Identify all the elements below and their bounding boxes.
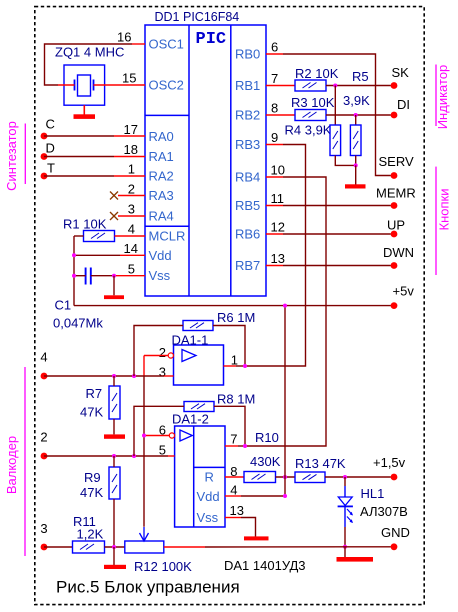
svg-text:1: 1	[231, 353, 238, 368]
junction R7 top	[112, 374, 116, 378]
svg-text:3: 3	[40, 521, 47, 536]
wire R1 left to +5 bus	[74, 235, 84, 237]
wire R11 to R12	[105, 546, 125, 548]
node GND	[391, 543, 398, 550]
junction R11/R12/R9/ground	[112, 545, 116, 549]
wire RB3 pin9 to DA1-1 output	[266, 144, 283, 146]
svg-text:DA1-2: DA1-2	[172, 412, 209, 427]
wire RA4 stub with no-connect X	[118, 215, 145, 217]
wire input3 to R11	[44, 546, 73, 548]
svg-text:R6 1M: R6 1M	[217, 310, 255, 325]
node 3 input	[41, 544, 48, 551]
wire DA1-1 output pin1	[224, 365, 237, 367]
svg-text:RA4: RA4	[149, 209, 174, 224]
ground (R7)	[104, 434, 125, 438]
wire R6 right to DA1-1 output	[213, 326, 245, 367]
svg-text:RB3: RB3	[235, 137, 260, 152]
svg-text:430K: 430K	[250, 454, 281, 469]
svg-text:11: 11	[271, 191, 285, 206]
svg-text:SK: SK	[392, 65, 410, 80]
net label Валкодер	[24, 367, 26, 556]
svg-text:UP: UP	[387, 218, 405, 233]
wire R5 top	[355, 115, 357, 125]
node 4 input	[41, 373, 48, 380]
svg-text:RB1: RB1	[235, 78, 260, 93]
wire pin6 DA1-2	[144, 435, 169, 437]
wire DA1-2 pin8 stub	[225, 476, 244, 478]
junction +5 rail	[283, 304, 287, 308]
resistor R11	[73, 541, 105, 553]
svg-text:R8 1M: R8 1M	[217, 392, 255, 407]
svg-text:R7: R7	[86, 386, 103, 401]
wire C to RA0	[44, 135, 114, 137]
wire R3 to DI	[326, 114, 391, 116]
junction DA1-1 output	[243, 364, 247, 368]
wire R9 top	[113, 456, 115, 467]
svg-text:9: 9	[271, 130, 278, 145]
wire RA3 stub with no-connect X	[118, 195, 145, 197]
svg-text:R9: R9	[84, 470, 101, 485]
resistor R1	[84, 231, 115, 242]
svg-text:C1: C1	[55, 298, 72, 313]
wire input2 to pin5 DA1-2	[44, 455, 168, 457]
junction R6 bus	[132, 374, 136, 378]
svg-text:6: 6	[271, 40, 278, 55]
junction LED/GND	[343, 545, 347, 549]
svg-text:DD1 PIC16F84: DD1 PIC16F84	[155, 10, 240, 24]
junction R13/LED	[343, 475, 347, 479]
wire R2 to SK	[326, 85, 391, 87]
svg-text:18: 18	[124, 142, 138, 157]
wire R13 right to +1,5v	[325, 476, 391, 478]
resistor R2	[295, 80, 326, 91]
svg-text:16: 16	[117, 30, 131, 45]
wire RB1 pin7 stub	[266, 85, 295, 87]
wire pin2 DA1-1	[144, 355, 168, 357]
junction pin6/wiper bus	[142, 434, 146, 438]
wire crystal to OSC2 pin15	[94, 84, 146, 86]
svg-text:+5v: +5v	[393, 284, 415, 299]
wire R9 bottom to R11/R12 junction	[113, 499, 115, 547]
svg-text:47K: 47K	[80, 405, 103, 420]
wire R7 ground stem	[113, 419, 115, 434]
svg-text:R12 100K: R12 100K	[134, 559, 192, 574]
node +1,5v	[391, 474, 398, 481]
wire Vss ground stem	[113, 276, 115, 296]
svg-text:15: 15	[122, 71, 136, 86]
svg-text:DA1 1401УД3: DA1 1401УД3	[224, 558, 306, 573]
junction Vss/ground	[112, 274, 116, 278]
svg-text:Vdd: Vdd	[197, 489, 220, 504]
junction R10/R13/+5 bus	[283, 475, 287, 479]
node +5v	[391, 302, 398, 309]
inversion bubble pin6	[169, 433, 174, 438]
crystal ZQ1	[64, 65, 105, 105]
svg-text:R3 10K: R3 10K	[291, 95, 335, 110]
svg-text:T: T	[47, 161, 55, 176]
svg-text:12: 12	[271, 220, 285, 235]
svg-text:R4 3,9K: R4 3,9K	[285, 123, 332, 138]
svg-text:5: 5	[128, 262, 135, 277]
svg-text:GND: GND	[381, 525, 410, 540]
wire T to RA2	[44, 175, 114, 177]
wire R6 left to input4 wire	[134, 326, 183, 377]
svg-text:АЛ307В: АЛ307В	[360, 504, 408, 519]
resistor R9	[109, 467, 120, 499]
wire DA1-2 pin13 to ground	[225, 517, 241, 519]
wire RB2 pin8 stub	[266, 114, 295, 116]
node DI	[391, 112, 398, 119]
svg-text:Индикатор: Индикатор	[435, 65, 450, 130]
op-amp DA1-2	[175, 426, 225, 527]
wire DA1-2 output pin7	[225, 445, 238, 447]
svg-text:4: 4	[128, 222, 135, 237]
wire RB4 pin10 to DA1-2 output	[266, 176, 283, 178]
resistor R3	[295, 110, 326, 121]
junction R3/R5	[354, 113, 358, 117]
wire LED ground stem	[344, 547, 346, 557]
wire +5 bus vertical	[73, 236, 75, 306]
svg-text:PIC: PIC	[196, 30, 227, 49]
wire RB7 pin13 to DWN	[266, 265, 283, 267]
svg-text:MCLR: MCLR	[149, 229, 186, 244]
wire C1 right to Vss pin5	[91, 275, 114, 277]
wire R1 to MCLR pin4	[115, 235, 146, 237]
node SK	[391, 82, 398, 89]
svg-text:Кнопки: Кнопки	[437, 189, 452, 231]
resistor R10	[244, 472, 276, 483]
wire +5v rail	[74, 305, 391, 307]
wire R8 left to input2 wire	[134, 406, 184, 456]
wire RB0 pin6 to SERV	[266, 53, 283, 55]
ground (pin13)	[244, 536, 269, 540]
wire C1 left	[74, 275, 86, 277]
net label Синтезатор	[24, 124, 26, 185]
svg-text:R13 47K: R13 47K	[295, 456, 346, 471]
capacitor C1	[86, 268, 91, 285]
wire R12 right to GND node	[164, 546, 205, 548]
svg-text:D: D	[46, 141, 55, 156]
junction DA1-2 output	[243, 444, 247, 448]
ground (R4 R5)	[345, 184, 366, 188]
resistor R13	[295, 472, 325, 483]
junction pin4/+5 bus	[283, 494, 287, 498]
node UP	[391, 231, 398, 238]
LED HL1	[338, 477, 353, 547]
node 2 input	[41, 453, 48, 460]
svg-text:RB2: RB2	[235, 108, 260, 123]
svg-text:R2 10K: R2 10K	[295, 66, 339, 81]
wire crystal left lead	[58, 84, 75, 86]
ground (crystal)	[74, 114, 96, 119]
node C input	[41, 133, 48, 140]
svg-text:8: 8	[271, 101, 278, 116]
svg-text:RB4: RB4	[235, 170, 260, 185]
net label Индикатор	[435, 65, 437, 127]
svg-text:OSC2: OSC2	[149, 78, 184, 93]
wire DA1-2 pin4	[225, 495, 241, 497]
svg-text:0,047Mk: 0,047Mk	[53, 316, 103, 331]
svg-text:47K: 47K	[80, 485, 103, 500]
svg-text:13: 13	[230, 503, 244, 518]
wire R10 right	[276, 476, 296, 478]
svg-text:RB0: RB0	[235, 47, 260, 62]
svg-text:DA1-1: DA1-1	[172, 333, 209, 348]
ground (GND)	[337, 557, 374, 562]
resistor R8	[184, 402, 214, 412]
svg-text:17: 17	[124, 122, 138, 137]
svg-text:OSC1: OSC1	[149, 37, 184, 52]
svg-text:Синтезатор: Синтезатор	[4, 121, 19, 191]
potentiometer R12	[125, 527, 164, 553]
svg-text:RB7: RB7	[235, 258, 260, 273]
node SERV	[391, 172, 398, 179]
op-amp DA1-1	[174, 345, 224, 385]
svg-text:RB5: RB5	[235, 198, 260, 213]
svg-text:R1 10K: R1 10K	[63, 217, 107, 232]
junction R8 bus	[132, 454, 136, 458]
svg-text:R10: R10	[255, 430, 279, 445]
wire Vdd pin14	[120, 254, 145, 256]
svg-text:10: 10	[271, 163, 285, 178]
wire RB5 pin11 to MEMR	[266, 205, 283, 207]
svg-text:MEMR: MEMR	[376, 186, 416, 201]
node T input	[41, 173, 48, 180]
svg-text:3: 3	[159, 365, 166, 380]
svg-text:14: 14	[124, 241, 138, 256]
svg-text:1: 1	[128, 162, 135, 177]
junction Vdd/+5 bus	[72, 253, 76, 257]
wire R8 right to DA1-2 output	[214, 406, 245, 446]
wire ground stem R4R5	[355, 165, 357, 184]
svg-text:HL1: HL1	[361, 486, 385, 501]
svg-text:DI: DI	[397, 97, 410, 112]
svg-text:R: R	[205, 470, 214, 485]
IC DD1 PIC16F84 body	[145, 25, 266, 296]
wire R4 top	[334, 86, 336, 126]
junction C1/+5 bus	[72, 274, 76, 278]
wire wiper bus upper (red part)	[143, 356, 145, 377]
svg-text:RA2: RA2	[149, 169, 174, 184]
svg-text:DWN: DWN	[383, 245, 414, 260]
svg-text:RA3: RA3	[149, 188, 174, 203]
svg-text:7: 7	[271, 71, 278, 86]
svg-text:2: 2	[40, 430, 47, 445]
wire OSC1 pin16 stub	[132, 43, 145, 45]
resistor R5	[350, 125, 361, 156]
wire R4 bottom to R5 bottom	[335, 156, 355, 166]
node D input	[41, 153, 48, 160]
ground (Vss/C1)	[104, 295, 124, 299]
resistor R7	[109, 386, 120, 419]
wire GND out	[345, 546, 391, 548]
svg-text:3,9K: 3,9K	[343, 93, 370, 108]
svg-text:5: 5	[159, 443, 166, 458]
resistor R6	[183, 321, 213, 331]
svg-text:7: 7	[230, 432, 237, 447]
svg-text:Vss: Vss	[197, 510, 219, 525]
svg-text:RB6: RB6	[235, 227, 260, 242]
net label Кнопки	[435, 167, 437, 275]
svg-text:3: 3	[128, 202, 135, 217]
node DWN	[391, 262, 398, 269]
svg-text:13: 13	[271, 251, 285, 266]
junction R4/R5 ground	[354, 163, 358, 167]
svg-text:4: 4	[230, 483, 237, 498]
svg-text:C: C	[46, 117, 55, 132]
wire wiper bus to R12	[143, 376, 145, 527]
wire R7 top	[113, 376, 115, 386]
wire OSC1 loop to crystal	[45, 44, 133, 85]
wire ground stem (R9/R11)	[113, 547, 115, 565]
wire crystal ground stem	[83, 105, 85, 114]
svg-text:ZQ1 4 МНС: ZQ1 4 МНС	[55, 45, 124, 60]
inversion bubble pin2	[168, 353, 173, 358]
svg-text:SERV: SERV	[379, 154, 414, 169]
svg-text:Vss: Vss	[149, 268, 171, 283]
svg-text:1,2K: 1,2K	[77, 527, 104, 542]
ground (R11/R12)	[104, 565, 126, 569]
svg-text:+1,5v: +1,5v	[373, 455, 406, 470]
svg-text:RA1: RA1	[149, 149, 174, 164]
wire D to RA1	[44, 156, 114, 158]
svg-text:Vdd: Vdd	[149, 248, 172, 263]
svg-text:RA0: RA0	[149, 129, 174, 144]
svg-text:R5: R5	[352, 69, 369, 84]
wire RB6 pin12 to UP	[266, 233, 283, 235]
junction R9 top	[112, 454, 116, 458]
svg-text:2: 2	[159, 345, 166, 360]
svg-text:2: 2	[128, 182, 135, 197]
resistor R4	[330, 125, 341, 156]
wire input4 to pin3 DA1-1	[44, 375, 164, 377]
node MEMR	[391, 202, 398, 209]
junction R2/R4	[333, 84, 337, 88]
svg-text:4: 4	[40, 350, 47, 365]
svg-text:Рис.5 Блок управления: Рис.5 Блок управления	[56, 578, 240, 597]
svg-text:Валкодер: Валкодер	[4, 436, 19, 494]
wire +5 bus down to pin4	[284, 306, 286, 496]
